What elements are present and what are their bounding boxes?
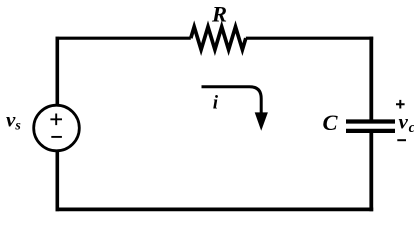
capacitor C1 bottom plate	[346, 129, 395, 133]
wire: bottom horizontal	[56, 207, 374, 211]
wire: left vertical, source bottom to bottom-left corner	[55, 151, 59, 211]
resistor R zigzag	[191, 27, 246, 50]
capacitor minus sign	[397, 139, 406, 141]
svg-text:i: i	[213, 93, 219, 114]
current arrowhead	[255, 112, 268, 130]
svg-text:C: C	[323, 110, 339, 135]
wire: right vertical, capacitor bottom plate to bottom-right corner	[369, 131, 373, 211]
capacitor C1 top plate	[346, 119, 395, 123]
current arrow i	[202, 87, 262, 116]
voltage source minus sign	[51, 136, 62, 138]
wire: left vertical, top-left corner to source top	[55, 37, 59, 105]
svg-text:vc: vc	[399, 110, 414, 136]
wire: right vertical, top corner to capacitor top plate	[369, 37, 373, 120]
wire: top horizontal, left corner to resistor	[56, 37, 191, 40]
voltage source V1 circle	[34, 105, 80, 151]
capacitor plus sign	[396, 100, 405, 109]
svg-text:R: R	[211, 2, 227, 27]
svg-text:vs: vs	[6, 107, 21, 133]
wire: top horizontal, resistor to top-right corner	[246, 37, 373, 40]
voltage source plus sign	[50, 114, 62, 126]
